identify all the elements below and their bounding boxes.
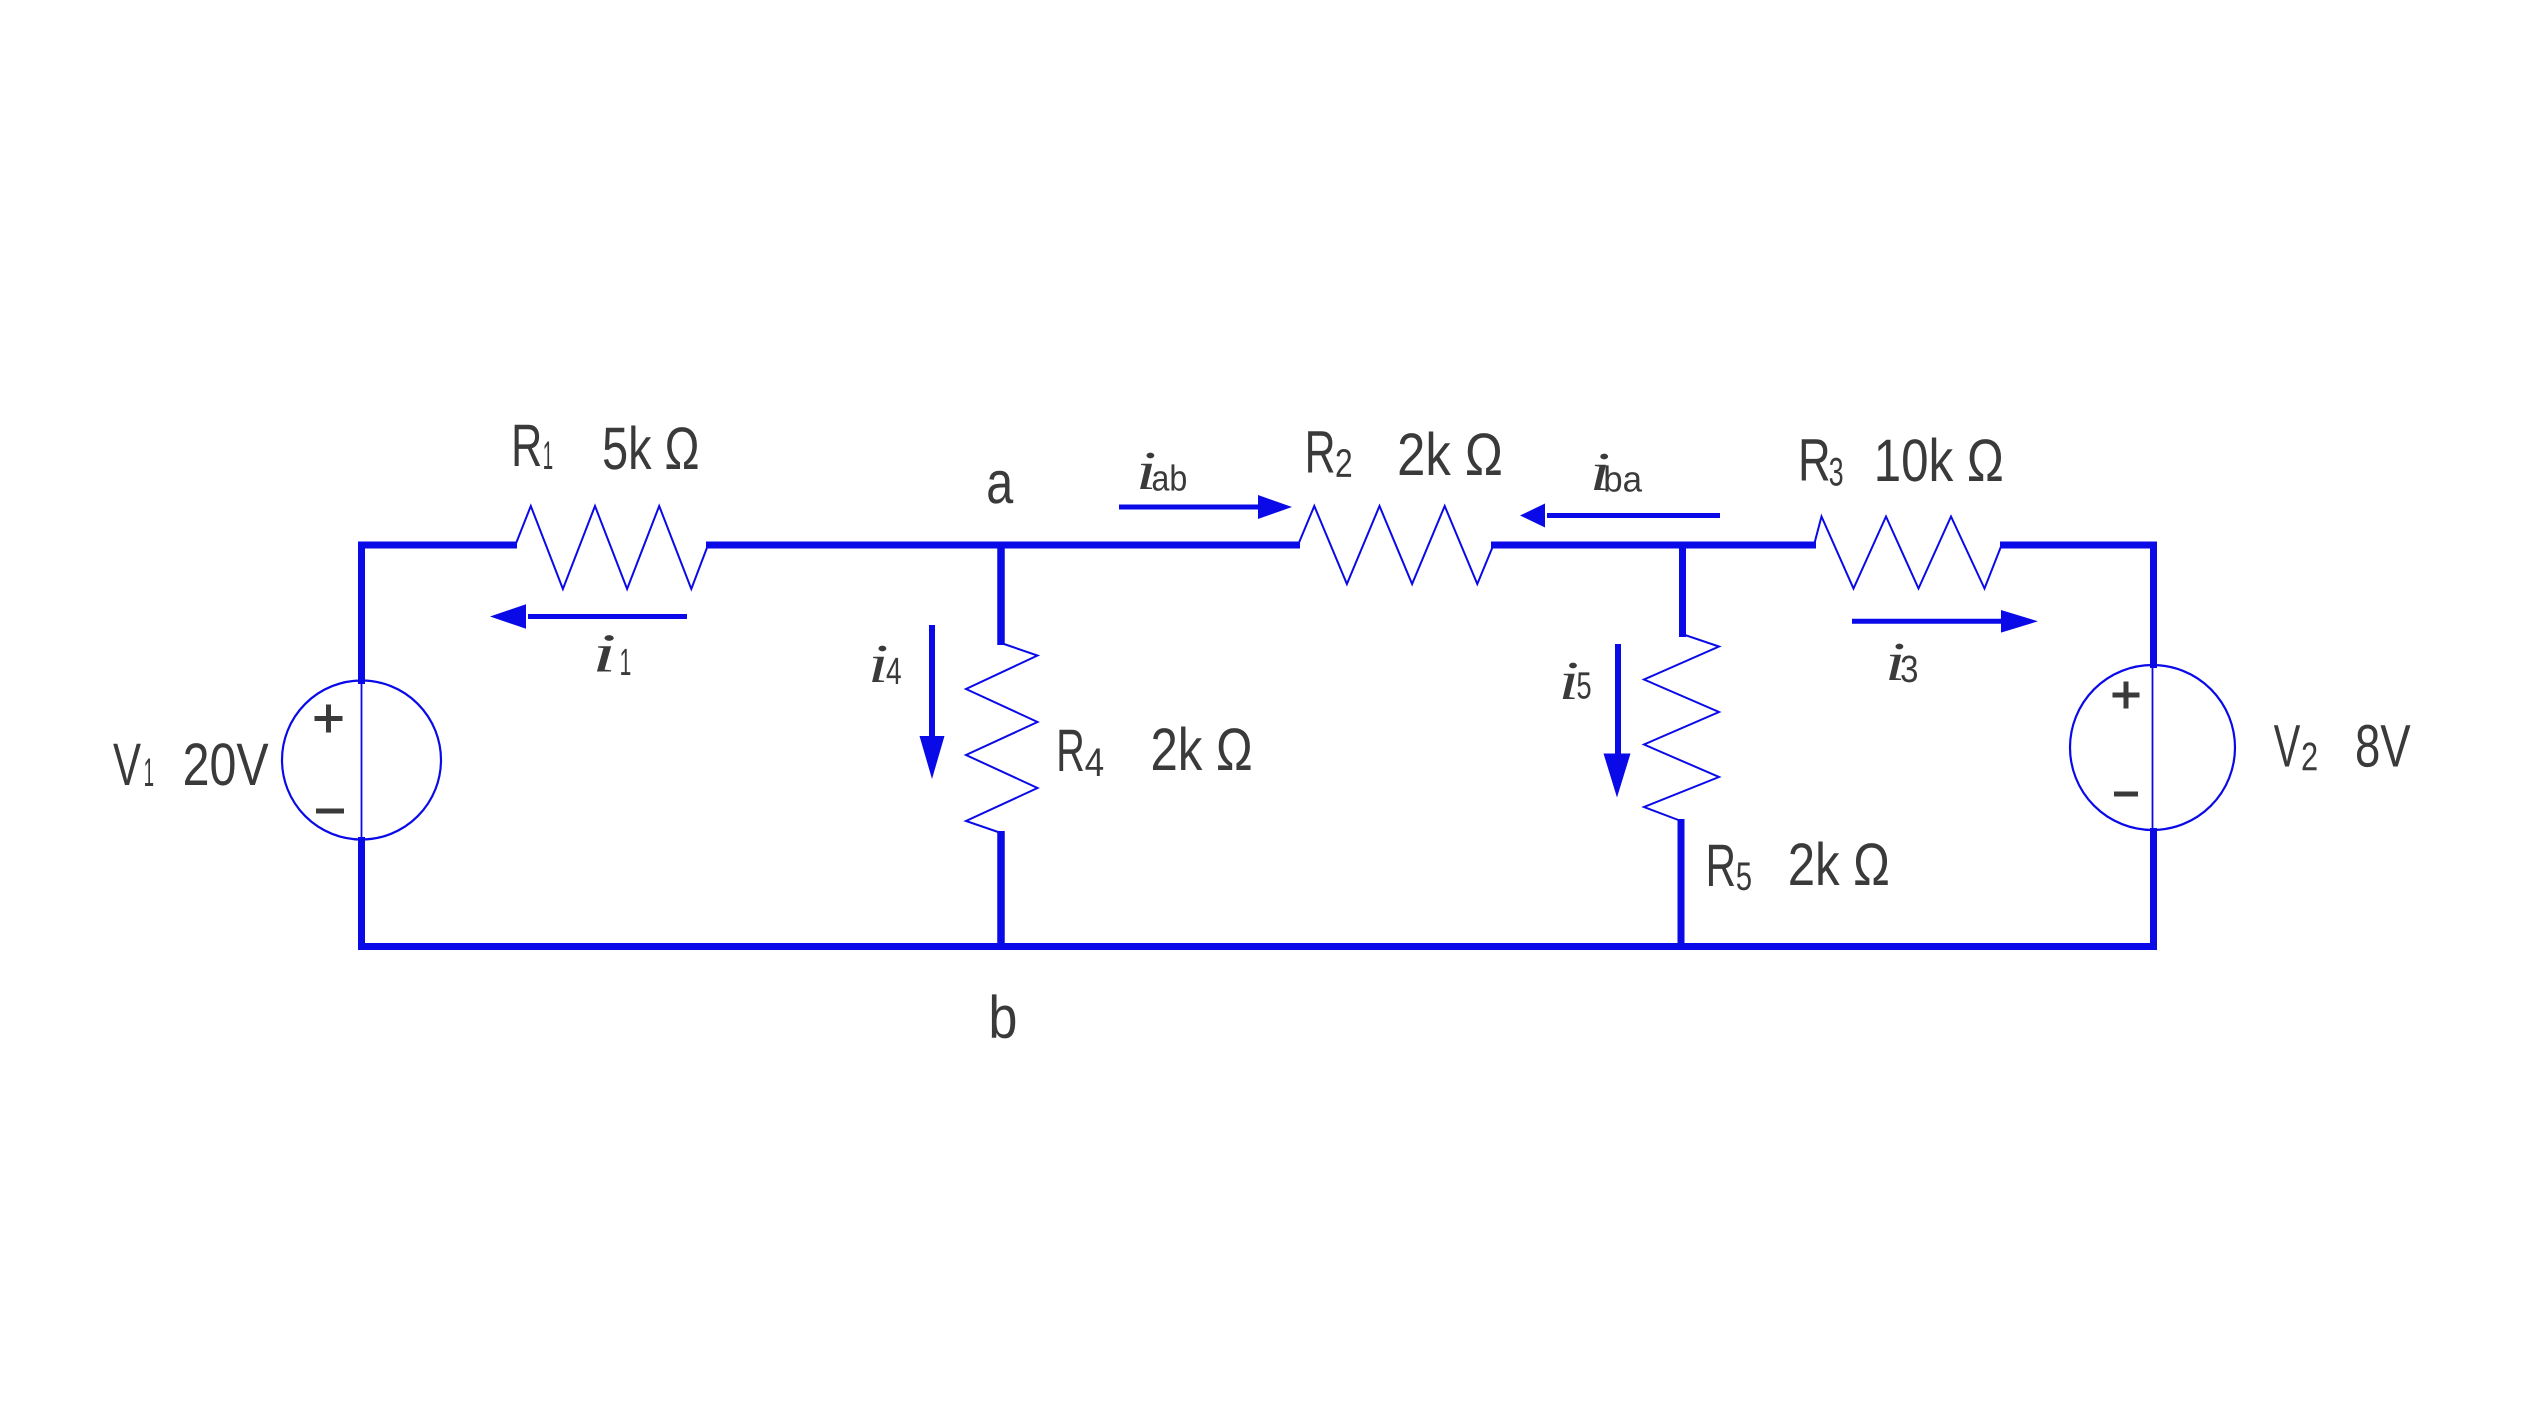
- resistor R1 zigzag: [515, 506, 708, 589]
- label i1 subscript 1: [621, 649, 630, 675]
- label V2 value 8V: [2357, 725, 2410, 767]
- label V1 value 20V: [185, 743, 268, 785]
- label R2 "R": [1308, 431, 1333, 472]
- label R4 subscript 4: [1086, 748, 1104, 776]
- label node b: [992, 994, 1015, 1038]
- label V2 subscript 2: [2303, 742, 2317, 770]
- wire R1 right to node a to R2 left: [706, 542, 1300, 549]
- label V2 "V": [2274, 725, 2300, 766]
- label R3 value 10k ohm: [1877, 438, 2001, 482]
- wire V1 bottom to bottom-left corner: [358, 837, 365, 950]
- label R1 subscript 1: [544, 441, 552, 469]
- label R5 value 2k ohm: [1790, 842, 1887, 885]
- voltage source V2 internal wire: [2152, 665, 2154, 830]
- label iab subscript ab: [1153, 464, 1186, 490]
- node a stub wire: [997, 545, 1005, 645]
- current arrow iba: [1520, 504, 1720, 528]
- current arrow iab: [1119, 495, 1292, 519]
- label V1 "V": [113, 744, 141, 785]
- label iba current i: [1594, 454, 1608, 490]
- wire R2 right to R5 junction to R3 left: [1491, 542, 1816, 549]
- bottom wire node b rail: [358, 943, 2157, 950]
- R5 top stub wire: [1679, 548, 1686, 637]
- label R5 subscript 5: [1737, 862, 1751, 890]
- label node a: [988, 471, 1013, 504]
- label R4 "R": [1059, 730, 1083, 771]
- wire top-left corner: V1 top to R1 left: [362, 545, 518, 684]
- label iba subscript ba: [1605, 465, 1642, 491]
- voltage source V2 plus sign: [2113, 682, 2140, 709]
- current arrow i5: [1604, 644, 1631, 798]
- current arrow i3: [1852, 610, 2038, 633]
- resistor R4 zigzag: [966, 643, 1038, 833]
- wire R4 bottom to node b: [997, 831, 1005, 950]
- current arrow i4: [920, 625, 945, 779]
- label i3 current i: [1889, 644, 1903, 680]
- label i4 current i: [872, 646, 886, 682]
- label V1 subscript 1: [145, 758, 153, 786]
- resistor R3 zigzag: [1814, 517, 2002, 589]
- label R1 value 5k ohm: [604, 426, 698, 470]
- label i4 subscript 4: [887, 658, 901, 684]
- wire top-right corner: R3 right to V2 top: [2000, 545, 2154, 668]
- label R3 "R": [1802, 439, 1829, 480]
- label i5 current i: [1563, 663, 1577, 699]
- label R2 value 2k ohm: [1400, 432, 1501, 475]
- label R5 "R": [1709, 845, 1734, 886]
- wire R5 bottom to node b: [1678, 819, 1685, 950]
- label iab current i: [1140, 453, 1154, 489]
- resistor R2 zigzag: [1298, 506, 1493, 584]
- voltage source V1 minus sign: [316, 809, 344, 814]
- wire V2 bottom to bottom-right corner: [2150, 828, 2157, 950]
- voltage source V1 plus sign: [315, 705, 343, 733]
- label R1 "R": [515, 425, 541, 466]
- voltage source V2 minus sign: [2114, 792, 2138, 797]
- label R3 subscript 3: [1830, 458, 1843, 486]
- voltage source V2 circle: [2070, 665, 2235, 830]
- voltage source V1 circle: [282, 681, 441, 840]
- label i3 subscript 3: [1901, 655, 1917, 682]
- label R2 subscript 2: [1337, 449, 1352, 477]
- resistor R5 zigzag: [1644, 634, 1719, 821]
- current arrow i1: [490, 604, 687, 629]
- label R4 value 2k ohm: [1153, 727, 1251, 770]
- label i5 subscript 5: [1577, 672, 1590, 699]
- voltage source V1 internal wire: [361, 681, 363, 839]
- label i1 current i: [597, 635, 614, 671]
